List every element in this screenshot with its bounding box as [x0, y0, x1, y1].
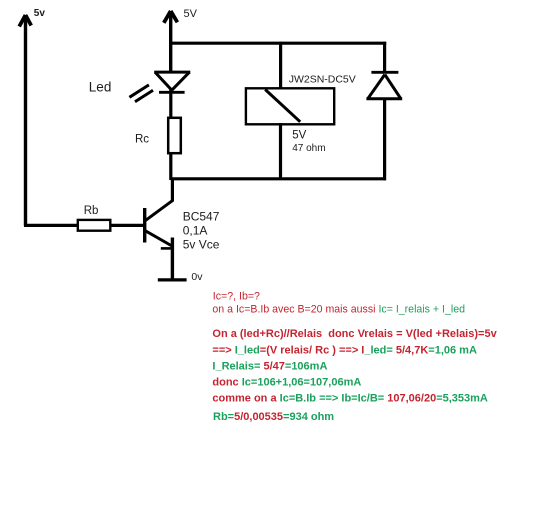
wire relay top lead — [279, 42, 282, 89]
LED D1 triangle — [154, 72, 190, 92]
svg-text:5v Vce: 5v Vce — [183, 238, 220, 252]
svg-text:comme on a Ic=B.Ib ==> Ib=Ic/B: comme on a Ic=B.Ib ==> Ib=Ic/B= 107,06/2… — [212, 392, 488, 404]
transistor emitter diagonal — [145, 231, 172, 246]
svg-text:Rc: Rc — [135, 133, 149, 145]
ground bar 0v — [158, 278, 187, 281]
5V supply arrow top — [164, 11, 178, 72]
transistor collector diagonal — [145, 200, 173, 221]
wire right rail bottom — [383, 98, 386, 181]
wire right rail top — [383, 42, 386, 73]
wire Rb to base — [111, 224, 147, 227]
svg-text:0v: 0v — [191, 271, 203, 283]
flyback diode D2 — [366, 72, 402, 98]
resistor Rc — [168, 118, 181, 153]
svg-text:==> I_led=(V relais/ Rc ) ==>: ==> I_led=(V relais/ Rc ) ==> I_led= 5/4… — [212, 344, 477, 356]
relay coil diagonal — [265, 90, 300, 122]
wire emitter vertical — [171, 238, 174, 281]
svg-text:5v: 5v — [34, 8, 46, 19]
wire collector vertical — [171, 178, 174, 202]
svg-text:JW2SN-DC5V: JW2SN-DC5V — [289, 74, 356, 86]
wire Rc bottom lead — [169, 152, 172, 180]
relay K1 JW2SN-DC5V box — [246, 88, 334, 124]
svg-text:Rb: Rb — [84, 205, 99, 217]
svg-text:5V: 5V — [184, 8, 198, 20]
resistor Rb — [78, 220, 111, 231]
svg-text:I_Relais= 5/47=106mA: I_Relais= 5/47=106mA — [212, 361, 327, 373]
wire collector node horizontal — [171, 177, 386, 180]
svg-text:Ic=?, Ib=?: Ic=?, Ib=? — [213, 291, 260, 303]
emitter arrow tick — [161, 247, 172, 250]
svg-text:On a (led+Rc)//Relais donc Vr: On a (led+Rc)//Relais donc Vrelais = V(l… — [212, 328, 497, 340]
svg-text:BC547: BC547 — [183, 209, 220, 223]
svg-text:Led: Led — [89, 80, 112, 95]
svg-text:47 ohm: 47 ohm — [292, 143, 325, 154]
svg-text:on a Ic=B.Ib avec B=20 mais au: on a Ic=B.Ib avec B=20 mais aussi Ic= I_… — [212, 303, 465, 315]
wire LED cathode to Rc — [169, 88, 172, 119]
wire top rail horizontal — [169, 42, 386, 45]
svg-text:0,1A: 0,1A — [183, 223, 208, 237]
5v supply arrow left rail — [19, 15, 31, 226]
svg-text:5V: 5V — [292, 129, 306, 141]
svg-text:donc Ic=106+1,06=107,06mA: donc Ic=106+1,06=107,06mA — [212, 376, 361, 388]
LED light ray slashes — [129, 85, 153, 102]
wire left rail to Rb — [24, 224, 78, 227]
svg-text:Rb=5/0,00535=934 ohm: Rb=5/0,00535=934 ohm — [213, 411, 334, 423]
wire relay bottom lead — [279, 123, 282, 180]
transistor Q1 BC547 base bar — [143, 208, 146, 243]
